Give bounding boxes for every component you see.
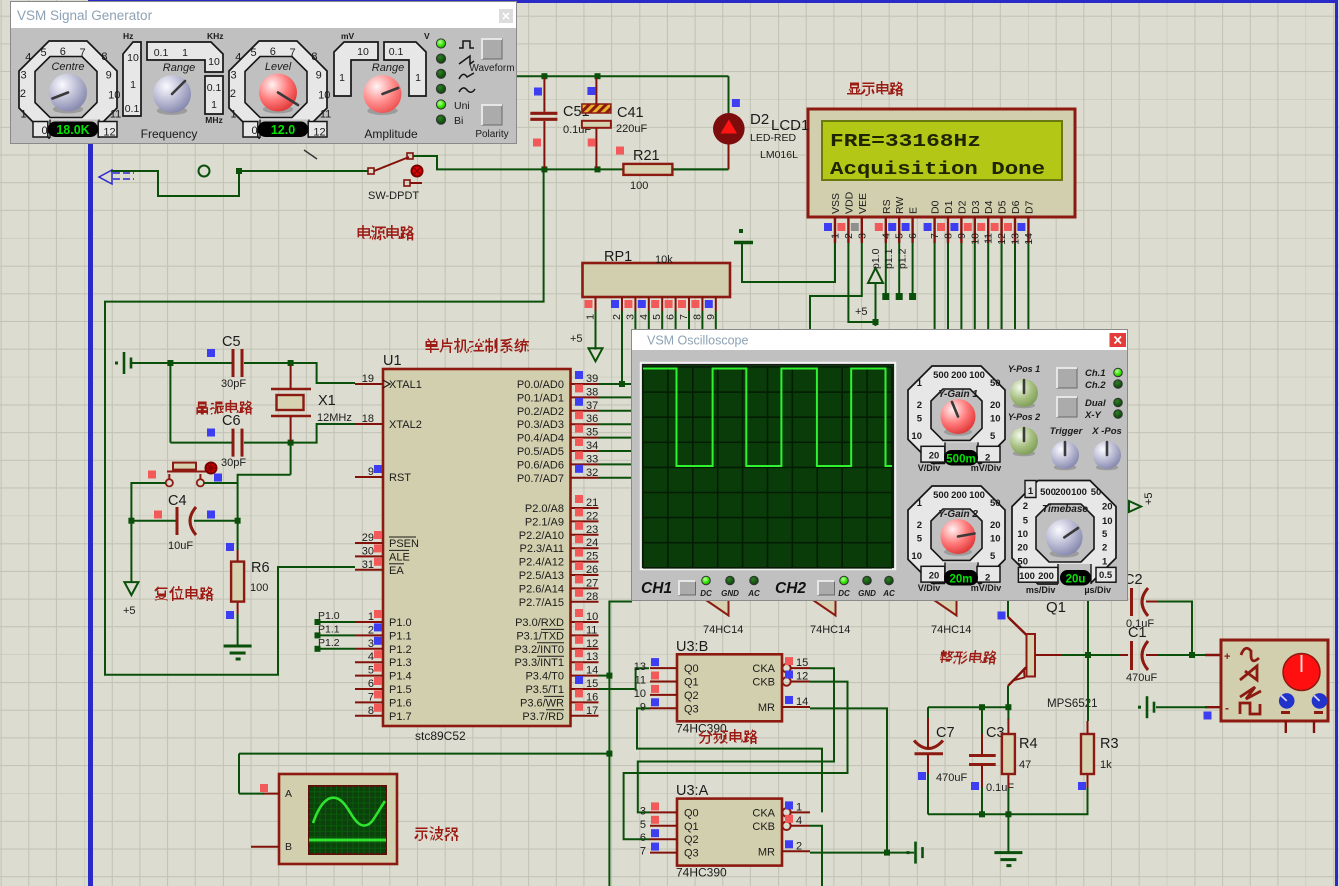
svg-text:15: 15 [586, 678, 598, 690]
U1 pin 29 (PSEN) [355, 531, 419, 550]
svg-text:20: 20 [990, 400, 1001, 411]
U3:A pin 7 (Q3) [640, 843, 699, 860]
svg-text:1: 1 [339, 72, 345, 84]
svg-text:C7: C7 [936, 725, 955, 741]
svg-text:36: 36 [586, 413, 598, 425]
switch SW-DPDT [368, 153, 423, 186]
svg-text:R3: R3 [1100, 736, 1119, 752]
svg-text:MPS6521: MPS6521 [1047, 698, 1098, 710]
svg-text:10: 10 [108, 89, 120, 101]
U1 pin 1 (P1.0) [355, 610, 412, 629]
wire P0.6 into scope window area [599, 463, 633, 465]
wire from shaping chain [1087, 600, 1089, 655]
svg-text:20: 20 [929, 451, 940, 462]
svg-text:5: 5 [894, 233, 906, 239]
RP1 pin 7 [678, 297, 690, 320]
svg-text:Q1: Q1 [684, 677, 699, 689]
svg-text:Q0: Q0 [684, 663, 699, 675]
wire C3 to bottom rail [981, 787, 983, 814]
junction lower rail C51 [541, 166, 547, 172]
wire C3 top wire [981, 707, 983, 734]
svg-text:37: 37 [586, 400, 598, 412]
svg-text:100: 100 [630, 180, 648, 192]
RP1 pin 4 [638, 297, 650, 320]
svg-text:P3.1/TXD: P3.1/TXD [516, 630, 564, 642]
svg-text:20: 20 [1017, 543, 1028, 554]
svg-text:V/Div: V/Div [918, 583, 941, 593]
U1 pin 2 (P1.1) [355, 623, 412, 642]
node net label p1.0 [870, 243, 890, 300]
svg-text:7: 7 [290, 47, 296, 59]
capacitor C3 [969, 734, 996, 788]
svg-text:XTAL2: XTAL2 [389, 419, 422, 431]
R4 value 47 [1019, 759, 1031, 771]
svg-text:30pF: 30pF [221, 457, 246, 469]
svg-text:Q1: Q1 [1046, 599, 1066, 616]
wire P0.7 into scope window area [599, 477, 633, 479]
U1 pin 39 (P0.0/AD0) [517, 371, 599, 391]
svg-text:P0.5/AD5: P0.5/AD5 [517, 446, 564, 458]
wire button left down [131, 483, 165, 521]
svg-text:10uF: 10uF [168, 540, 193, 552]
svg-text:P3.4/T0: P3.4/T0 [525, 671, 564, 683]
svg-text:14: 14 [1023, 233, 1035, 245]
wire to +5 flag [130, 521, 132, 582]
svg-text:11: 11 [983, 233, 995, 244]
U3:A pin 3 (Q0) [640, 802, 699, 819]
svg-text:mV/Div: mV/Div [971, 583, 1002, 593]
U1 pin 35 (P0.4/AD4) [517, 425, 599, 445]
node net label P1.1 [315, 623, 356, 638]
svg-text:35: 35 [586, 427, 598, 439]
power flag +5 (shaping) [1129, 501, 1141, 512]
wire LCD D2 down [960, 243, 962, 332]
svg-text:+5: +5 [855, 306, 868, 318]
svg-text:Uni: Uni [454, 100, 470, 112]
svg-text:100: 100 [969, 490, 985, 501]
74HC14 value label 1 [703, 624, 743, 636]
wire to scope A horizontal [239, 753, 609, 755]
wire U3A.CKB down [810, 826, 822, 886]
battery (generator return) [1138, 696, 1154, 718]
power flag +5 (RP1) [589, 348, 603, 361]
resistor R6 [231, 562, 244, 602]
U1 pin 4 (P1.3) [355, 650, 412, 669]
wire emitter rail [928, 706, 1010, 708]
U1 pin 26 (P2.5/A13) [519, 562, 599, 582]
C6 label [222, 413, 241, 429]
svg-text:30: 30 [362, 545, 374, 557]
+5 label [123, 605, 136, 617]
svg-text:3: 3 [368, 638, 374, 650]
schematic sheet border top [88, 0, 1338, 3]
capacitor C5 [233, 349, 242, 377]
svg-text:10: 10 [911, 431, 922, 442]
LED D2 [713, 113, 745, 169]
svg-text:LCD1: LCD1 [771, 117, 809, 134]
wire RP1 pin1 to +5 [595, 311, 597, 350]
svg-text:12: 12 [313, 127, 325, 139]
U1 pin 17 (P3.7/RD) [522, 703, 598, 723]
wire R6 top wire [237, 521, 239, 550]
C4 label [168, 493, 187, 509]
svg-text:2: 2 [20, 88, 26, 100]
U3:A pin 6 (Q2) [640, 829, 699, 846]
svg-text:2: 2 [230, 88, 236, 100]
C41 label [617, 105, 644, 121]
junction bottom rail R4 [1005, 811, 1011, 817]
svg-text:CKA: CKA [752, 807, 775, 819]
svg-text:11: 11 [110, 108, 121, 120]
svg-text:6: 6 [907, 233, 919, 239]
svg-text:20: 20 [1102, 502, 1113, 513]
svg-text:30pF: 30pF [221, 378, 246, 390]
svg-text:C41: C41 [617, 105, 644, 121]
U1 pin 5 (P1.4) [355, 664, 412, 683]
wire to generator minus [1156, 706, 1207, 708]
svg-text:Y-Pos 1: Y-Pos 1 [1008, 364, 1040, 374]
svg-text:10: 10 [318, 89, 330, 101]
svg-text:Q3: Q3 [684, 703, 699, 715]
U3:A pin 5 (Q1) [640, 816, 699, 833]
+5 label (shaping) [1143, 492, 1155, 505]
LCD pin 11 (D4) [977, 200, 995, 243]
wire C7 to bottom rail [927, 774, 929, 814]
junction X1 bottom junction [288, 440, 294, 446]
capacitor C6 [233, 429, 242, 457]
svg-text:4: 4 [880, 233, 892, 239]
svg-text:13: 13 [634, 661, 646, 673]
svg-text:6: 6 [270, 46, 276, 58]
svg-text:1: 1 [182, 47, 188, 59]
C3 label [986, 725, 1005, 741]
U1 pin 10 (P3.0/RXD) [515, 609, 598, 629]
svg-text:2: 2 [985, 573, 990, 584]
svg-text:VSM Oscilloscope: VSM Oscilloscope [647, 334, 748, 348]
wire U3A.MR to ground [810, 852, 914, 854]
wire R21 to LED [672, 168, 728, 170]
svg-text:19: 19 [362, 373, 374, 385]
U1 pin 13 (P3.3/INT1) [514, 649, 598, 669]
74HC14 value label 2 [810, 624, 850, 636]
svg-text:VSS: VSS [830, 193, 842, 214]
instrument window: VSM Oscilloscope [632, 330, 1127, 600]
svg-text:X -Pos: X -Pos [1091, 426, 1122, 437]
wire LCD D5 down [1001, 243, 1003, 332]
U1 value stc89c52 [415, 729, 466, 743]
net label 整形电路 [938, 650, 998, 665]
svg-text:R6: R6 [251, 560, 270, 576]
wire R4 to bottom rail [1007, 788, 1009, 814]
svg-text:3: 3 [231, 69, 237, 81]
C7 label [936, 725, 955, 741]
svg-text:0.1uF: 0.1uF [986, 782, 1014, 794]
U1 pin 25 (P2.4/A12) [519, 549, 599, 569]
U3:B pin 11 (Q1) [635, 672, 699, 689]
svg-text:C5: C5 [222, 334, 241, 350]
svg-text:22: 22 [586, 510, 598, 522]
node net label P1.0 [315, 610, 356, 625]
svg-text:9: 9 [368, 466, 374, 478]
U1 designator [383, 353, 402, 369]
svg-text:-: - [1225, 701, 1229, 715]
svg-text:CH1: CH1 [641, 580, 672, 597]
svg-text:8: 8 [101, 51, 107, 63]
U1 pin 11 (P3.1/TXD) [516, 622, 598, 642]
svg-text:DC: DC [838, 589, 850, 598]
svg-text:34: 34 [586, 440, 598, 452]
wire RP1 pin2 down to P0.0 [621, 311, 623, 384]
junction C2 junction [1189, 652, 1195, 658]
svg-text:1: 1 [130, 79, 136, 91]
wire P0.5 into scope window area [599, 450, 633, 452]
U1 pin 33 (P0.6/AD6) [517, 451, 599, 471]
svg-text:5: 5 [917, 414, 923, 425]
svg-text:P1.5: P1.5 [389, 684, 412, 696]
R3 value 1k [1100, 759, 1112, 771]
svg-text:10: 10 [634, 688, 646, 700]
svg-text:50: 50 [990, 378, 1001, 389]
svg-text:RST: RST [389, 472, 411, 484]
svg-text:D7: D7 [1023, 200, 1035, 214]
svg-text:500: 500 [933, 490, 949, 501]
U1 pin 28 (P2.7/A15) [519, 589, 599, 609]
svg-text:Amplitude: Amplitude [364, 127, 418, 141]
svg-text:9: 9 [316, 69, 322, 81]
svg-text:P2.7/A15: P2.7/A15 [519, 597, 564, 609]
resistor R3 [1081, 734, 1094, 774]
svg-text:12MHz: 12MHz [317, 412, 352, 424]
U1 pin 31 (EA) [355, 558, 404, 577]
svg-text:SW-DPDT: SW-DPDT [368, 190, 419, 202]
wire to C6 [170, 442, 232, 444]
svg-text:31: 31 [362, 559, 374, 571]
svg-text:1k: 1k [1100, 759, 1112, 771]
U3:A value 74HC390 [676, 866, 727, 880]
C1 label [1128, 625, 1147, 641]
74HC14 value label 3 [931, 624, 971, 636]
U1 pin 9 (RST) [355, 465, 411, 484]
svg-text:D0: D0 [930, 200, 942, 214]
svg-text:200: 200 [951, 490, 967, 501]
wire gnd to C5 [131, 362, 232, 364]
svg-text:1: 1 [830, 233, 842, 239]
IC U3:B 74HC390 [677, 654, 782, 721]
svg-text:0.1uF: 0.1uF [1126, 618, 1154, 630]
inverter U4 74HC14 (partially hidden) [931, 598, 957, 616]
svg-text:C4: C4 [168, 493, 187, 509]
capacitor C1 (polarized) [1132, 641, 1149, 670]
wire emitter down [1007, 686, 1009, 707]
resistor pack RP1 [583, 263, 731, 297]
LCD pin 12 (D5) [991, 200, 1009, 244]
svg-text:10k: 10k [655, 254, 673, 266]
node net label p1.1 [883, 243, 903, 300]
wire base to C1 [1062, 654, 1120, 656]
svg-text:D2: D2 [956, 200, 968, 214]
wire C1 to generator [1158, 654, 1207, 656]
oscilloscope component (示波器) [251, 774, 397, 864]
svg-text:20: 20 [990, 520, 1001, 531]
U1 pin 7 (P1.6) [355, 690, 412, 709]
svg-text:Hz: Hz [123, 31, 133, 41]
C3 value 0.1uF [986, 782, 1014, 794]
R6 value 100 [250, 582, 268, 594]
svg-text:12.0: 12.0 [271, 123, 295, 137]
svg-text:P3.6/WR: P3.6/WR [520, 697, 564, 709]
svg-text:220uF: 220uF [616, 123, 647, 135]
svg-text:4: 4 [25, 52, 31, 64]
svg-text:P2.0/A8: P2.0/A8 [525, 503, 564, 515]
svg-text:P1.2: P1.2 [318, 637, 340, 649]
svg-text:10: 10 [127, 52, 139, 64]
C41 value 220uF [616, 123, 647, 135]
junction base junction [1085, 652, 1091, 658]
svg-text:10: 10 [969, 233, 981, 245]
svg-text:P2.2/A10: P2.2/A10 [519, 530, 564, 542]
U1 pin 38 (P0.1/AD1) [517, 384, 599, 404]
ground (shaping) [994, 853, 1022, 866]
ground (reset) [224, 646, 252, 659]
wire VCC loop to EA [105, 169, 544, 674]
C2 value 0.1uF [1126, 618, 1154, 630]
wire P0.1 into scope window area [599, 396, 633, 398]
svg-text:26: 26 [586, 564, 598, 576]
ground (crystal) [115, 352, 131, 374]
svg-text:Q3: Q3 [684, 848, 699, 860]
svg-text:1: 1 [1028, 486, 1034, 497]
X1 value 12MHz [317, 412, 352, 424]
svg-text:24: 24 [586, 537, 598, 549]
svg-text:D4: D4 [983, 200, 995, 214]
wire R6 to gnd [237, 614, 239, 646]
svg-text:Centre: Centre [51, 61, 84, 73]
R6 label [251, 560, 270, 576]
junction scope A junction [606, 751, 612, 757]
U1 pin 24 (P2.3/A11) [520, 535, 599, 555]
RP1 pin 5 [651, 297, 663, 320]
wire shaped signal vertical [609, 602, 632, 886]
X1 label [318, 393, 336, 409]
svg-text:200: 200 [951, 370, 967, 381]
switch SW-DPDT label [368, 190, 419, 202]
svg-text:X1: X1 [318, 393, 336, 409]
svg-text:PSEN: PSEN [389, 538, 419, 550]
svg-text:2: 2 [917, 520, 922, 531]
power flag +5 (LCD) [868, 268, 883, 326]
svg-text:10: 10 [208, 56, 220, 68]
svg-text:Timebase: Timebase [1042, 504, 1088, 515]
svg-text:12: 12 [586, 638, 598, 650]
wire input loop [111, 171, 239, 196]
svg-text:10: 10 [990, 414, 1001, 425]
svg-text:Dual: Dual [1085, 398, 1106, 409]
svg-text:20u: 20u [1066, 574, 1086, 586]
wire scope A drop [238, 754, 240, 794]
svg-text:47: 47 [1019, 759, 1031, 771]
svg-text:200: 200 [1038, 571, 1054, 582]
capacitor C2 (polarized) [1132, 588, 1149, 616]
svg-text:P1.7: P1.7 [389, 711, 412, 723]
svg-text:Range: Range [372, 62, 404, 74]
svg-text:0.1: 0.1 [125, 103, 140, 115]
svg-text:CKB: CKB [752, 821, 775, 833]
svg-text:10: 10 [990, 534, 1001, 545]
svg-text:5: 5 [990, 551, 996, 562]
C4 value 10uF [168, 540, 193, 552]
svg-text:32: 32 [586, 467, 598, 479]
svg-text:VEE: VEE [857, 193, 869, 214]
U3:B value 74HC390 [676, 721, 727, 735]
capacitor C4 (polarized) [177, 507, 196, 535]
LCD pin 6 (E) [902, 207, 920, 243]
svg-text:+5: +5 [570, 333, 583, 345]
svg-text:21: 21 [586, 497, 598, 509]
svg-text:0.1: 0.1 [207, 82, 222, 94]
svg-text:9: 9 [640, 701, 646, 713]
junction lower rail C41 [595, 166, 601, 172]
LCD pin 13 (D6) [1004, 200, 1022, 244]
D2 label [750, 111, 769, 128]
svg-text:Ch.1: Ch.1 [1085, 368, 1106, 379]
svg-text:100: 100 [969, 370, 985, 381]
svg-text:100: 100 [1071, 487, 1087, 498]
svg-text:17: 17 [586, 705, 598, 717]
LCD pin 1 (VSS) [824, 193, 842, 243]
wire LCD D6 down [1014, 243, 1016, 332]
svg-text:1: 1 [917, 378, 923, 389]
svg-text:0: 0 [41, 125, 47, 137]
U3:B pin 15 (CKA) [752, 657, 810, 675]
LCD pin 9 (D2) [950, 200, 968, 243]
svg-text:5: 5 [250, 47, 256, 59]
svg-text:74HC14: 74HC14 [931, 624, 971, 636]
resistor R21 [623, 164, 672, 175]
wire switch to rail [413, 156, 516, 169]
RP1 value 10k [655, 254, 673, 266]
svg-text:2: 2 [368, 624, 374, 636]
svg-text:P0.7/AD7: P0.7/AD7 [517, 473, 564, 485]
net label 示波器 [414, 826, 459, 841]
svg-text:mV: mV [341, 31, 355, 41]
svg-text:74HC14: 74HC14 [703, 624, 743, 636]
schematic sheet border left [88, 0, 93, 886]
U1 pin 30 (ALE) [355, 544, 410, 563]
RP1 pin 9 [705, 297, 717, 320]
svg-text:MHz: MHz [205, 115, 222, 125]
svg-text:P3.5/T1: P3.5/T1 [525, 684, 564, 696]
svg-text:100: 100 [250, 582, 268, 594]
svg-text:P1.1: P1.1 [389, 630, 412, 642]
svg-text:RW: RW [894, 197, 906, 214]
LCD1 designator [771, 117, 809, 134]
wire RP1 pin8 into scope area [701, 311, 703, 332]
svg-text:P3.3/INT1: P3.3/INT1 [514, 657, 564, 669]
svg-text:0.1: 0.1 [154, 47, 169, 59]
svg-text:p1.0: p1.0 [870, 248, 882, 269]
svg-text:U1: U1 [383, 353, 402, 369]
C5 value 30pF [221, 378, 246, 390]
svg-text:8: 8 [943, 233, 955, 239]
U3:A pin 4 (CKB) [752, 815, 810, 833]
svg-text:Polarity: Polarity [475, 129, 508, 140]
svg-text:50: 50 [1091, 487, 1102, 498]
svg-text:11: 11 [320, 108, 331, 120]
svg-text:5: 5 [1102, 529, 1108, 540]
svg-text:P1.0: P1.0 [389, 617, 412, 629]
svg-text:P2.6/A14: P2.6/A14 [519, 583, 564, 595]
net label 晶振电路 [196, 400, 253, 415]
